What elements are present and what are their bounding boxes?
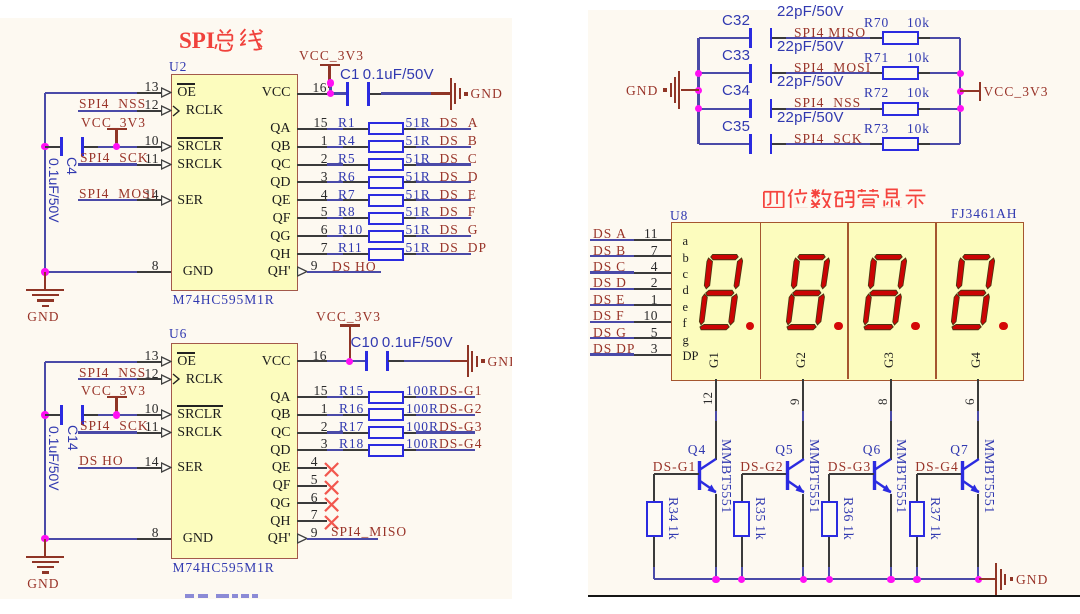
net label DS&#8201;G wire xyxy=(590,337,634,339)
decimal point digit 4 xyxy=(999,322,1008,331)
decimal point digit 3 xyxy=(911,322,920,331)
wire pin to resistor R10 xyxy=(327,235,344,237)
capacitor C32 designator xyxy=(722,13,750,28)
U6 pin name VCC xyxy=(262,354,291,369)
VCC_3V3 label left of U2 xyxy=(81,115,146,130)
resistor R70 value 10k xyxy=(907,15,930,30)
net label DS-G1 xyxy=(439,383,483,398)
junction dot right bus VCC stem xyxy=(957,88,965,96)
resistor R1 designator xyxy=(338,115,356,130)
title SPI bus (SPI) text xyxy=(179,29,215,53)
net label DS_HO (U6) xyxy=(79,453,124,468)
resistor R10 value xyxy=(406,222,431,237)
resistor R35 designator and value (rotated) xyxy=(752,497,767,540)
junction dot right bus row3 xyxy=(957,105,965,113)
resistor R36 designator and value (rotated) xyxy=(840,497,855,540)
U6 pin 8 (GND) stub xyxy=(137,538,171,540)
resistor R72 designator xyxy=(864,85,889,100)
capacitor C10 designator and value xyxy=(351,335,453,350)
net label SPI4_SCK wire xyxy=(78,163,137,165)
wire C14 right plate to VCC junction xyxy=(84,414,99,416)
net label DS&#160;&#160;E xyxy=(440,187,478,202)
U6 pin 9 wire to SPI4_MISO xyxy=(297,538,298,540)
capacitor C14 designator (rotated) xyxy=(65,425,80,451)
resistor R18 xyxy=(368,444,405,457)
U6 pin name QC xyxy=(271,425,290,440)
capacitor C4 value 0.1uF/50V (rotated) xyxy=(46,158,61,223)
power port VCC_3V3 above C1 xyxy=(299,48,364,63)
U6 pin name SRCLK xyxy=(177,425,222,440)
ground symbol left of RC filter xyxy=(681,89,699,91)
wire base of Q7 to corner xyxy=(917,473,962,475)
resistor R7 value xyxy=(406,187,431,202)
net label SPI4_SCK xyxy=(80,150,149,165)
net label DS&#160;&#160;A xyxy=(440,115,479,130)
net label DS&#8201;C wire xyxy=(590,271,634,273)
U2 pin name QH' xyxy=(268,264,291,279)
U2 pin 10 (SRCLR) stub with arrow xyxy=(137,146,162,148)
U2 pin 4 stub xyxy=(297,199,327,201)
resistor R71 value 10k xyxy=(907,50,930,65)
resistor R73 xyxy=(882,137,919,151)
U2 pin name SRCLR with overline xyxy=(177,139,221,154)
clipped text fragment at bottom of left panel xyxy=(185,594,194,598)
junction dot at U6 bus / GND row xyxy=(41,535,49,543)
U6 pin name QD xyxy=(270,443,290,458)
transistor Q7 part number MMBT5551 (rotated) xyxy=(981,439,996,514)
U6 pin 9 (QH') output arrow xyxy=(297,533,308,544)
7-segment digit figure 1 xyxy=(698,253,750,331)
power port VCC_3V3 above U6 pin 10 xyxy=(107,396,127,398)
transistor Q4 symbol xyxy=(697,455,721,497)
net label DS&#160;&#160;G xyxy=(440,222,479,237)
right schematic panel background xyxy=(588,10,1080,596)
title SPI bus chinese characters xyxy=(212,28,264,54)
U2 clock chevron on RCLK pin xyxy=(172,105,181,117)
U8 segment letter a xyxy=(683,235,689,248)
wire bus to capacitor C35 xyxy=(699,143,750,145)
junction dot emitter Q6 on rail xyxy=(887,576,895,584)
transistor Q6 part number MMBT5551 (rotated) xyxy=(893,439,908,514)
resistor R16 value xyxy=(406,401,439,416)
resistor R7 designator xyxy=(338,187,356,202)
U6 pin 12 (RCLK) stub with arrow xyxy=(137,378,162,380)
U8 pin number 6 (rotated) xyxy=(962,398,977,405)
U2 pin name QH xyxy=(270,247,290,262)
U2 pin 2 stub xyxy=(297,164,327,166)
U8 common pin label G1 (rotated) xyxy=(707,352,721,368)
resistor R36 xyxy=(821,501,838,537)
net label DS&#160;&#160;B xyxy=(440,133,478,148)
U6 pin name SRCLR with overline xyxy=(177,407,221,422)
wire emitter of Q7 to ground rail xyxy=(977,494,979,568)
U8 pin 5 (g) stub xyxy=(634,337,672,339)
junction dot VCC stem on SRCLR wire xyxy=(113,143,121,151)
U2 pin 8 (GND) stub xyxy=(137,271,171,273)
wire base of Q5 to corner xyxy=(742,473,787,475)
wire resistor to net DS&#160;&#160;G xyxy=(404,235,416,237)
junction dot left bus row2 xyxy=(695,70,703,78)
net label DS-G1 xyxy=(653,459,697,474)
U8 pin 11 (a) stub xyxy=(634,239,672,241)
resistor R70 designator xyxy=(864,15,889,30)
ground rail wire at bottom xyxy=(654,578,979,580)
net label SPI4_NSS wire xyxy=(78,110,137,112)
U2 pin name QA xyxy=(270,121,290,136)
right panel bottom border line xyxy=(588,595,1080,597)
wire corner down to resistor R37 xyxy=(916,474,918,501)
resistor R17 designator xyxy=(339,419,364,434)
resistor R8 xyxy=(368,212,405,225)
ground symbol right of C10 (clipped) xyxy=(450,360,467,362)
U2 pin name SRCLK xyxy=(177,157,222,172)
U6 U2 pin name OE with overline xyxy=(177,354,196,369)
transistor Q5 designator xyxy=(775,442,793,457)
resistor R34 designator and value (rotated) xyxy=(665,497,680,540)
wire bus to U6 pin 13 xyxy=(45,361,137,363)
U6 pin 1 stub xyxy=(297,414,327,416)
wire bus to U6 pin 8 xyxy=(45,538,137,540)
wire resistor R72 to right bus xyxy=(918,108,931,110)
U8 segment letter e xyxy=(683,301,689,314)
junction dot resistor on rail xyxy=(826,576,834,584)
net label DS&#160;&#160;F xyxy=(440,204,477,219)
ground symbol right of rail xyxy=(979,578,995,580)
wire left bus of RC filter xyxy=(697,38,699,144)
power port VCC_3V3 above C10 xyxy=(316,309,381,324)
net label SPI4&#160;&#160;SCK xyxy=(794,131,863,146)
wire corner down to resistor R35 xyxy=(741,474,743,501)
wire resistor to net DS-G3 xyxy=(404,432,416,434)
ground symbol below U2 bus xyxy=(44,272,46,289)
resistor R15 designator xyxy=(339,383,364,398)
ground symbol right of C1 xyxy=(431,92,450,94)
resistor R6 value xyxy=(406,169,431,184)
capacitor C33 designator xyxy=(722,48,750,63)
capacitor C33 xyxy=(749,64,752,84)
U2 pin 9 (QH') output arrow xyxy=(297,266,308,277)
resistor R70 xyxy=(882,31,919,45)
wire resistor to net DS&#160;&#160;E xyxy=(404,199,416,201)
U6 pin 3 stub xyxy=(297,449,327,451)
wire capacitor to resistor R70 xyxy=(772,37,786,39)
capacitor C35 designator xyxy=(722,119,750,134)
wire pin16 to C1 xyxy=(327,92,349,94)
resistor R72 value 10k xyxy=(907,85,930,100)
wire base of Q4 to corner xyxy=(654,473,699,475)
wire resistor to net DS&#160;&#160;DP xyxy=(404,253,416,255)
U2 pin 3 stub xyxy=(297,181,327,183)
resistor R71 designator xyxy=(864,50,889,65)
wire bus to U2 pin 13 xyxy=(45,92,137,94)
U2 pin name QF xyxy=(273,211,291,226)
net label DS&#8201;F wire xyxy=(590,321,634,323)
U8 pin 9 (G2) stub below box xyxy=(802,379,804,411)
U8 designator xyxy=(670,208,688,223)
transistor Q5 part number MMBT5551 (rotated) xyxy=(806,439,821,514)
op-amp U6 body (74HC595 shift register) xyxy=(171,343,299,559)
transistor Q5 symbol xyxy=(785,455,809,497)
U6 clock chevron on RCLK pin xyxy=(172,373,181,385)
wire pin to resistor R18 xyxy=(327,449,344,451)
U6 pin 13 (OE) stub with arrow xyxy=(137,361,162,363)
U2 pin name GND xyxy=(183,264,213,279)
net label DS&#8201;B xyxy=(593,243,626,258)
net label DS&#8201;F xyxy=(593,308,625,323)
U8 pin number 11 xyxy=(644,226,658,241)
junction dot right bus row2 xyxy=(957,70,965,78)
U6 designator xyxy=(169,326,187,341)
capacitor C32 xyxy=(749,28,752,48)
wire resistor to net DS-G1 xyxy=(404,396,416,398)
resistor R73 value 10k xyxy=(907,121,930,136)
net label SPI4_NSS xyxy=(79,96,146,111)
net label DS_HO xyxy=(332,259,377,274)
resistor R11 designator xyxy=(338,240,363,255)
U2 designator xyxy=(169,59,187,74)
7-segment digit figure 3 xyxy=(862,253,914,331)
U8 pin number 10 xyxy=(644,308,659,323)
wire pin to resistor R11 xyxy=(327,253,344,255)
wire bus to C4 left plate xyxy=(45,146,62,148)
wire capacitor to resistor R73 xyxy=(772,143,786,145)
wire pin to resistor R6 xyxy=(327,181,344,183)
U2 pin 6 stub xyxy=(297,235,327,237)
net label DS&#8201;A wire xyxy=(590,239,634,241)
net label DS&#8201;G xyxy=(593,325,627,340)
U8 pin number 4 xyxy=(651,259,658,274)
U6 pin 4 stub (no connect) xyxy=(297,467,327,469)
junction dot VCC stem on U6 SRCLR wire xyxy=(113,411,121,419)
wire resistor R37 to ground rail xyxy=(916,537,918,568)
U8 digit separator 3 xyxy=(935,222,937,380)
net label DS&#160;&#160;C xyxy=(440,151,478,166)
net label DS-G2 xyxy=(740,459,784,474)
U6 pin 15 stub xyxy=(297,396,327,398)
resistor R71 xyxy=(882,66,919,80)
wire bus to capacitor C33 xyxy=(699,72,750,74)
net label DS_HO wire (U6) xyxy=(78,467,137,469)
junction dot at U6 bus / C14 xyxy=(41,411,49,419)
no-connect X on U6 pin 7 xyxy=(324,515,339,530)
U8 pin number 9 (rotated) xyxy=(787,398,802,405)
U8 segment letter d xyxy=(683,284,689,297)
capacitor C34 designator xyxy=(722,83,750,98)
U8 part number FJ3461AH xyxy=(951,206,1017,221)
wire pin to resistor R16 xyxy=(327,414,344,416)
U6 pin 2 stub xyxy=(297,432,327,434)
GND label left of RC filter xyxy=(626,83,658,98)
U2 pin name QE xyxy=(272,193,291,208)
U8 pin 3 (DP) stub xyxy=(634,354,672,356)
wire pin to resistor R5 xyxy=(327,163,344,165)
junction dot emitter Q5 on rail xyxy=(800,576,808,584)
wire resistor to net DS&#160;&#160;A xyxy=(404,128,416,130)
resistor R6 designator xyxy=(338,169,356,184)
net label DS&#8201;B wire xyxy=(590,255,634,257)
net label DS&#160;&#160;D xyxy=(440,169,479,184)
wire corner down to resistor R36 xyxy=(828,474,830,501)
U6 pin name QF xyxy=(273,478,291,493)
capacitor C14 xyxy=(60,405,63,425)
U8 pin number 3 xyxy=(651,341,658,356)
U8 digit separator 1 xyxy=(760,222,762,380)
wire base of Q6 to corner xyxy=(829,473,874,475)
wire capacitor to resistor R71 xyxy=(772,72,786,74)
U6 pin 6 stub (no connect) xyxy=(297,502,327,504)
capacitor C35 xyxy=(749,134,752,154)
resistor R34 xyxy=(646,501,663,537)
U2 pin 9 wire to DS_HO xyxy=(297,271,298,273)
wire bus to C14 left plate xyxy=(45,414,62,416)
U8 pin 10 (f) stub xyxy=(634,321,672,323)
wire C4 right plate to VCC junction xyxy=(84,146,99,148)
wire pin to resistor R17 xyxy=(327,431,344,433)
VCC_3V3 label left of U6 xyxy=(81,383,146,398)
resistor R11 value xyxy=(406,240,431,255)
capacitor C14 value 0.1uF/50V (rotated) xyxy=(46,426,61,491)
U2 pin 15 stub xyxy=(297,128,327,130)
wire resistor to net DS-G4 xyxy=(404,449,416,451)
transistor Q6 designator xyxy=(863,442,881,457)
net label DS-G3 xyxy=(439,419,483,434)
decimal point digit 1 xyxy=(746,322,755,331)
wire corner down to resistor R34 xyxy=(653,474,655,501)
U6 pin 11 (SRCLK) stub with arrow xyxy=(137,432,162,434)
resistor R1 xyxy=(368,122,405,135)
resistor R8 value xyxy=(406,204,431,219)
capacitor C34 value 22pF/50V xyxy=(777,74,844,89)
wire resistor R36 to ground rail xyxy=(828,537,830,568)
U8 pin number 7 xyxy=(651,243,658,258)
capacitor C1 designator and value xyxy=(340,67,434,82)
wire resistor to net DS&#160;&#160;F xyxy=(404,217,416,219)
U2 U2 pin name OE with overline xyxy=(177,85,196,100)
resistor R4 designator xyxy=(338,133,356,148)
U8 pin number 12 (rotated) xyxy=(700,392,715,405)
resistor R72 xyxy=(882,102,919,116)
U6 pin 7 stub (no connect) xyxy=(297,520,327,522)
title chinese: four-digit 7-segment display xyxy=(762,188,928,208)
U8 pin 8 (G3) stub below box xyxy=(890,379,892,411)
resistor R15 xyxy=(368,391,405,404)
junction dot resistor on rail xyxy=(738,576,746,584)
transistor Q4 designator xyxy=(688,442,706,457)
resistor R15 value xyxy=(406,383,439,398)
U2 pin 13 (OE) stub with arrow xyxy=(137,92,162,94)
U8 pin 12 (G1) stub below box xyxy=(715,379,717,411)
U6 pin name QG xyxy=(270,496,290,511)
U8 pin 7 (b) stub xyxy=(634,255,672,257)
U2 pin 14 (SER) stub with arrow xyxy=(137,199,162,201)
wire capacitor to resistor R72 xyxy=(772,108,786,110)
junction dot on pin16 wire xyxy=(327,90,335,98)
white gutter between panels xyxy=(512,0,588,614)
wire resistor to net DS&#160;&#160;C xyxy=(404,164,416,166)
wire pin16 to C10 xyxy=(327,360,368,362)
resistor R4 xyxy=(368,140,405,153)
U8 common pin label G2 (rotated) xyxy=(794,352,808,368)
capacitor C34 xyxy=(749,99,752,119)
net label SPI4&#8201;MISO xyxy=(794,25,866,40)
wire pin to resistor R8 xyxy=(327,217,344,219)
junction dot left bus row3 xyxy=(695,105,703,113)
junction dot left bus GND stem xyxy=(695,87,703,95)
wire pin to resistor R15 xyxy=(327,396,344,398)
U6 pin 16 (VCC) stub xyxy=(297,360,327,362)
U6 pin 10 (SRCLR) stub with arrow xyxy=(137,414,162,416)
U2 pin name QD xyxy=(270,175,290,190)
wire emitter of Q4 to ground rail xyxy=(715,494,717,568)
wire C10 to GND symbol xyxy=(388,360,404,362)
wire resistor R71 to right bus xyxy=(918,72,931,74)
net label DS&#8201;D wire xyxy=(590,288,634,290)
resistor R5 designator xyxy=(338,151,356,166)
wire resistor to net DS&#160;&#160;B xyxy=(404,146,416,148)
U8 pin 6 (G4) stub below box xyxy=(977,379,979,411)
junction dot at bus / GND row xyxy=(41,268,49,276)
U6 pin name QH' xyxy=(268,531,291,546)
net label DS&#160;&#160;DP xyxy=(440,240,488,255)
junction dot at bus / C4 xyxy=(41,143,49,151)
U6 pin 14 (SER) stub with arrow xyxy=(137,467,162,469)
U8 segment letter DP xyxy=(683,350,699,363)
capacitor C33 value 22pF/50V xyxy=(777,39,844,54)
resistor R18 designator xyxy=(339,436,364,451)
U8 pin 4 (c) stub xyxy=(634,272,672,274)
resistor R5 value xyxy=(406,151,431,166)
wire resistor to net DS&#160;&#160;D xyxy=(404,181,416,183)
U8 digit separator 2 xyxy=(847,222,849,380)
U2 pin name RCLK xyxy=(186,103,223,118)
U2 pin name QB xyxy=(271,139,290,154)
U6 pin name QE xyxy=(272,460,291,475)
capacitor C10 xyxy=(365,351,368,371)
wire resistor R34 to ground rail xyxy=(653,537,655,568)
resistor R37 xyxy=(909,501,926,537)
resistor R6 xyxy=(368,176,405,189)
net label SPI4&#160;&#160;MOSI xyxy=(794,60,871,75)
U8 segment letter c xyxy=(683,268,689,281)
transistor Q7 designator xyxy=(950,442,968,457)
U8 pin number 1 xyxy=(651,292,658,307)
wire resistor R70 to right bus xyxy=(918,37,931,39)
net label DS&#8201;E wire xyxy=(590,304,634,306)
U8 common pin label G4 (rotated) xyxy=(969,352,983,368)
resistor R17 value xyxy=(406,419,439,434)
resistor R8 designator xyxy=(338,204,356,219)
transistor Q6 symbol xyxy=(872,455,896,497)
wire G3 to transistor collector xyxy=(890,411,892,421)
U6 pin name QB xyxy=(271,407,290,422)
power port VCC_3V3 right of RC filter xyxy=(960,90,979,92)
U2 part number M74HC595M1R xyxy=(173,292,275,307)
wire bus to capacitor C32 xyxy=(699,37,750,39)
wire resistor R35 to ground rail xyxy=(741,537,743,568)
resistor R11 xyxy=(368,248,405,261)
decimal point digit 2 xyxy=(834,322,843,331)
resistor R4 value xyxy=(406,133,431,148)
U2 pin 11 (SRCLK) stub with arrow xyxy=(137,164,162,166)
U8 pin number 5 xyxy=(651,325,658,340)
U2 pin 12 (RCLK) stub with arrow xyxy=(137,110,162,112)
wire pin to resistor R1 xyxy=(327,128,344,130)
junction dot emitter Q7 on rail xyxy=(975,576,983,584)
junction dot on U6 pin16 wire xyxy=(346,358,354,366)
U6 pin name RCLK xyxy=(186,372,223,387)
net label DS&#8201;A xyxy=(593,226,627,241)
resistor R18 value xyxy=(406,436,439,451)
